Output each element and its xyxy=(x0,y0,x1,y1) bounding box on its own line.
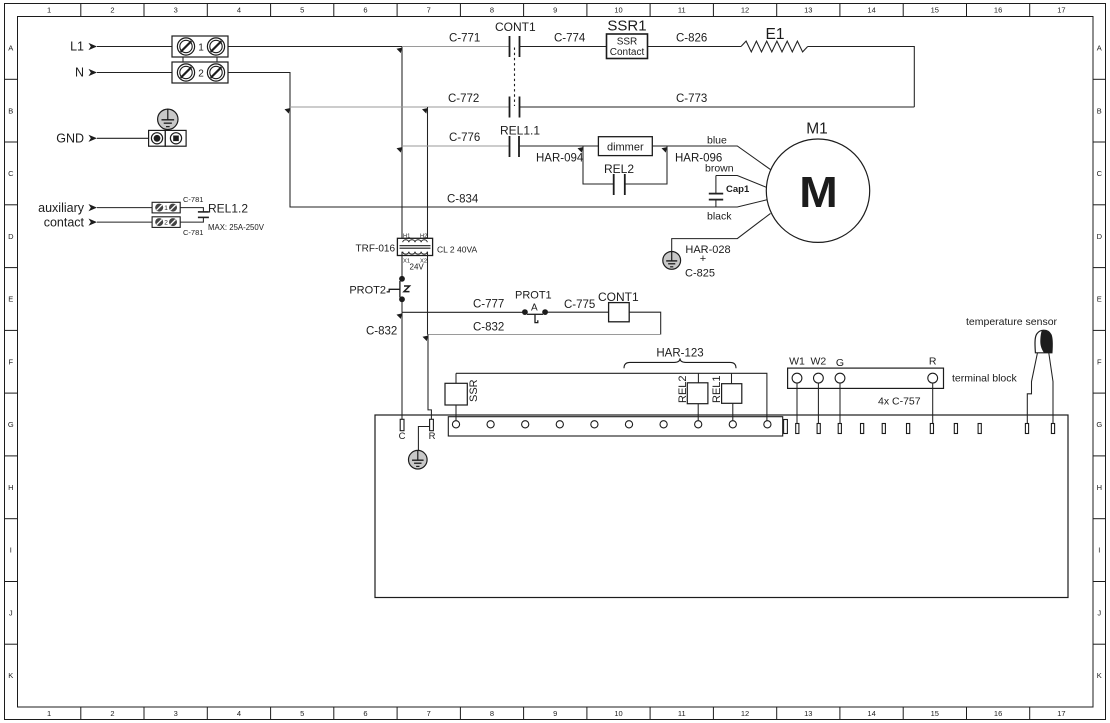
svg-text:9: 9 xyxy=(553,709,557,718)
node TRF H2 junction xyxy=(422,108,428,114)
svg-text:C-834: C-834 xyxy=(447,194,479,206)
svg-text:6: 6 xyxy=(363,6,367,15)
svg-text:R: R xyxy=(929,356,937,368)
svg-text:M1: M1 xyxy=(806,121,828,138)
svg-text:A: A xyxy=(531,303,538,314)
svg-text:5: 5 xyxy=(300,709,304,718)
svg-text:J: J xyxy=(9,608,13,617)
wire motor ground HAR-028 xyxy=(672,213,771,251)
wire contact to terminal xyxy=(97,221,152,223)
svg-text:7: 7 xyxy=(427,6,431,15)
svg-text:SSR: SSR xyxy=(468,379,480,402)
contact REL1.2 xyxy=(180,208,209,223)
svg-text:REL2: REL2 xyxy=(677,375,689,403)
wire brown xyxy=(716,176,767,188)
wire E1 to right bus xyxy=(808,47,915,108)
svg-text:11: 11 xyxy=(678,6,686,15)
svg-text:2: 2 xyxy=(110,709,114,718)
svg-text:R: R xyxy=(429,431,436,442)
svg-text:3: 3 xyxy=(174,709,178,718)
wire REL2 bypass right xyxy=(625,146,667,184)
svg-text:H2: H2 xyxy=(420,233,427,239)
svg-text:K: K xyxy=(8,671,13,680)
svg-text:G: G xyxy=(836,357,844,369)
ground board xyxy=(409,450,428,469)
contactor CONT1 pole 1 xyxy=(510,36,520,57)
svg-text:K: K xyxy=(1097,671,1102,680)
svg-text:black: black xyxy=(707,211,732,223)
wire N bus corner xyxy=(290,203,294,207)
wire C-832 return gray xyxy=(428,334,661,336)
svg-text:3: 3 xyxy=(174,6,178,15)
wire C-774 xyxy=(520,46,607,48)
svg-text:blue: blue xyxy=(707,135,727,147)
svg-text:B: B xyxy=(1097,106,1102,115)
svg-text:CL 2 40VA: CL 2 40VA xyxy=(437,245,477,255)
svg-text:E: E xyxy=(1097,295,1102,304)
svg-text:C-825: C-825 xyxy=(685,268,715,280)
wire HAR-094 xyxy=(519,145,598,147)
svg-text:F: F xyxy=(1097,357,1102,366)
wire R bus to board xyxy=(428,335,431,420)
node C-777 junction xyxy=(397,313,403,319)
svg-text:brown: brown xyxy=(705,163,734,175)
svg-text:H1: H1 xyxy=(403,233,410,239)
svg-text:E: E xyxy=(8,295,13,304)
pin R xyxy=(430,419,434,430)
wire SSR top xyxy=(455,373,457,383)
wire REL2 bypass left xyxy=(583,146,613,184)
capacitor Cap1 xyxy=(709,176,723,208)
svg-text:15: 15 xyxy=(931,6,939,15)
ground HAR-028 xyxy=(663,252,681,270)
wire R to ground xyxy=(418,427,429,451)
svg-text:9: 9 xyxy=(553,6,557,15)
svg-text:GND: GND xyxy=(56,132,84,146)
wire TRF H2 vertical xyxy=(427,107,429,243)
wire SSR bottom xyxy=(455,405,457,421)
coil CONT1 xyxy=(609,303,630,322)
svg-text:7: 7 xyxy=(427,709,431,718)
wire GND to earth terminal xyxy=(97,137,149,139)
wire L1 bus vertical xyxy=(401,47,403,244)
wire W1 drop xyxy=(796,383,798,424)
svg-text:F: F xyxy=(9,357,14,366)
svg-text:6: 6 xyxy=(363,709,367,718)
svg-text:C-781: C-781 xyxy=(183,228,203,237)
terminal block pin 1 xyxy=(172,36,228,57)
svg-text:1: 1 xyxy=(164,205,168,212)
svg-text:11: 11 xyxy=(678,709,686,718)
wire N to terminal 2 xyxy=(97,72,172,74)
wire REL1 drop xyxy=(732,403,734,420)
svg-text:dimmer: dimmer xyxy=(607,142,644,154)
svg-text:14: 14 xyxy=(867,709,875,718)
wire W2 drop xyxy=(817,383,819,424)
pin C xyxy=(400,419,404,430)
svg-text:4: 4 xyxy=(237,709,241,718)
svg-text:17: 17 xyxy=(1057,6,1065,15)
svg-text:H: H xyxy=(8,483,13,492)
svg-text:CONT1: CONT1 xyxy=(598,290,639,304)
aux terminal pin 2 xyxy=(152,217,180,228)
svg-text:C-777: C-777 xyxy=(473,299,504,311)
svg-text:PROT2: PROT2 xyxy=(349,285,386,297)
svg-text:16: 16 xyxy=(994,6,1002,15)
thermal switch PROT2 xyxy=(387,276,410,302)
svg-text:C-781: C-781 xyxy=(183,195,203,204)
relay coil REL2 xyxy=(687,383,708,404)
svg-text:C-774: C-774 xyxy=(554,33,586,45)
wire L1 feeder xyxy=(228,46,402,48)
wire C-771 gray xyxy=(402,46,509,48)
svg-text:temperature sensor: temperature sensor xyxy=(966,316,1058,328)
svg-text:REL1: REL1 xyxy=(711,375,723,403)
svg-text:W2: W2 xyxy=(811,356,827,368)
svg-text:8: 8 xyxy=(490,709,494,718)
terminal block W1 W2 G R xyxy=(788,368,944,388)
wire PROT2 to C junction xyxy=(401,302,403,313)
svg-text:C: C xyxy=(8,169,14,178)
svg-text:+: + xyxy=(700,253,706,265)
relay SSR1 contact box xyxy=(607,34,648,59)
svg-text:10: 10 xyxy=(614,709,622,718)
wire N feeder xyxy=(228,73,290,204)
svg-text:SSR1: SSR1 xyxy=(607,18,646,35)
svg-text:SSR: SSR xyxy=(617,37,638,48)
svg-text:C-772: C-772 xyxy=(448,93,479,105)
svg-text:4x C-757: 4x C-757 xyxy=(878,396,921,408)
svg-text:14: 14 xyxy=(867,6,875,15)
node C-776 junction xyxy=(397,147,403,153)
temperature sensor xyxy=(1035,330,1052,353)
node L1 bus junction xyxy=(397,48,403,54)
svg-text:10: 10 xyxy=(614,6,622,15)
svg-text:HAR-094: HAR-094 xyxy=(536,153,584,165)
node dimmer input junction xyxy=(578,147,584,153)
wire C-772 gray xyxy=(290,106,509,108)
relay coil SSR xyxy=(445,383,467,405)
svg-text:contact: contact xyxy=(44,216,85,230)
svg-text:G: G xyxy=(8,420,14,429)
svg-text:1: 1 xyxy=(198,43,204,54)
wire REL2 drop xyxy=(697,404,699,421)
svg-text:G: G xyxy=(1096,420,1102,429)
svg-text:HAR-123: HAR-123 xyxy=(656,348,703,360)
svg-text:8: 8 xyxy=(490,6,494,15)
svg-text:MAX: 25A-250V: MAX: 25A-250V xyxy=(208,223,265,232)
contactor CONT1 pole 2 xyxy=(510,97,520,118)
wire terminal link xyxy=(183,57,217,62)
svg-text:I: I xyxy=(10,546,12,555)
connector strip xyxy=(448,417,782,436)
relay contact REL1.1 xyxy=(510,136,520,157)
svg-text:D: D xyxy=(8,232,14,241)
thermal switch PROT1 xyxy=(522,303,548,323)
wire dimmer output xyxy=(652,145,667,147)
svg-text:24V: 24V xyxy=(410,263,425,272)
svg-text:12: 12 xyxy=(741,709,749,718)
node C-832 junction xyxy=(423,336,429,342)
wire auxiliary to terminal xyxy=(97,207,152,209)
svg-text:15: 15 xyxy=(931,709,939,718)
wire REL2 riser xyxy=(697,373,699,383)
wire sensor left leg xyxy=(1027,353,1037,424)
aux terminal pin 1 xyxy=(152,202,180,213)
wire REL1 riser xyxy=(731,373,733,383)
svg-text:C-832: C-832 xyxy=(366,326,397,338)
svg-text:H: H xyxy=(1097,483,1102,492)
contactor linkage dashed xyxy=(514,48,516,107)
wire C-776 gray xyxy=(402,145,509,147)
svg-text:C-775: C-775 xyxy=(564,299,595,311)
svg-text:5: 5 xyxy=(300,6,304,15)
wire C-777 xyxy=(402,311,524,313)
svg-text:1: 1 xyxy=(47,709,51,718)
board pins xyxy=(784,420,1055,434)
dimmer xyxy=(598,137,652,156)
wire G drop xyxy=(839,383,841,424)
svg-text:I: I xyxy=(1098,546,1100,555)
relay coil REL1 xyxy=(722,384,742,404)
wire CONT1 coil return xyxy=(629,312,661,334)
brace HAR-123 xyxy=(624,358,736,368)
svg-text:D: D xyxy=(1097,232,1103,241)
svg-text:13: 13 xyxy=(804,709,812,718)
svg-text:REL1.1: REL1.1 xyxy=(500,124,540,138)
wire R drop xyxy=(932,383,934,424)
board outline xyxy=(375,415,1068,598)
svg-text:2: 2 xyxy=(198,69,204,80)
svg-text:13: 13 xyxy=(804,6,812,15)
svg-text:2: 2 xyxy=(164,220,168,227)
svg-text:W1: W1 xyxy=(789,356,805,368)
svg-text:1: 1 xyxy=(47,6,51,15)
svg-text:C-773: C-773 xyxy=(676,93,707,105)
wire coil common xyxy=(456,373,767,420)
svg-text:L1: L1 xyxy=(70,40,84,54)
svg-text:C-832: C-832 xyxy=(473,322,504,334)
svg-text:J: J xyxy=(1097,608,1101,617)
svg-text:N: N xyxy=(75,66,84,80)
node dimmer output junction xyxy=(662,147,668,153)
ground terminal block xyxy=(149,130,187,146)
svg-text:2: 2 xyxy=(110,6,114,15)
svg-text:A: A xyxy=(1097,44,1102,53)
wire X2 down xyxy=(427,252,429,335)
svg-text:B: B xyxy=(8,106,13,115)
svg-text:17: 17 xyxy=(1057,709,1065,718)
transformer TRF-016 xyxy=(397,238,432,255)
svg-text:C-771: C-771 xyxy=(449,33,480,45)
terminal block pin 2 xyxy=(172,62,228,83)
svg-text:4: 4 xyxy=(237,6,241,15)
svg-text:C-776: C-776 xyxy=(449,132,480,144)
svg-text:C: C xyxy=(1097,169,1103,178)
svg-text:E1: E1 xyxy=(766,26,785,43)
svg-text:C: C xyxy=(399,431,406,442)
wire sensor right leg xyxy=(1049,353,1053,424)
wire C-775 xyxy=(548,311,609,313)
motor M1 xyxy=(766,139,869,242)
svg-text:TRF-016: TRF-016 xyxy=(356,244,396,255)
svg-text:Cap1: Cap1 xyxy=(726,184,750,195)
wire X1 down xyxy=(401,252,403,277)
svg-text:auxiliary: auxiliary xyxy=(38,201,85,215)
earth symbol xyxy=(158,109,178,129)
svg-text:12: 12 xyxy=(741,6,749,15)
wire C-773 xyxy=(520,106,915,108)
relay contact REL2 xyxy=(614,174,625,195)
svg-text:HAR-028: HAR-028 xyxy=(685,244,730,256)
svg-text:CONT1: CONT1 xyxy=(495,20,536,34)
wire L1 to terminal 1 xyxy=(97,46,172,48)
wire C-826 xyxy=(648,46,742,48)
node C-772 junction xyxy=(285,108,291,114)
svg-text:Contact: Contact xyxy=(610,47,645,58)
wire C-834 xyxy=(294,200,767,207)
svg-text:A: A xyxy=(8,44,13,53)
wire C bus to board xyxy=(401,312,403,419)
svg-text:PROT1: PROT1 xyxy=(515,290,552,302)
svg-text:16: 16 xyxy=(994,709,1002,718)
svg-text:terminal block: terminal block xyxy=(952,373,1018,385)
wire blue xyxy=(667,146,771,170)
svg-text:REL2: REL2 xyxy=(604,162,634,176)
svg-text:M: M xyxy=(799,169,838,217)
svg-text:REL1.2: REL1.2 xyxy=(208,202,248,216)
svg-text:C-826: C-826 xyxy=(676,33,707,45)
